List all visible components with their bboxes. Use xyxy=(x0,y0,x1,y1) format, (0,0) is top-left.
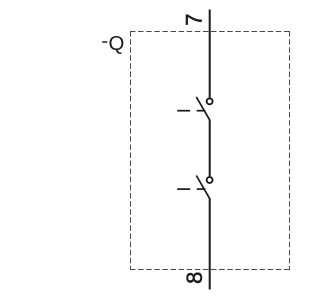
contact 1: actuator dashed link xyxy=(177,110,190,112)
dashed outline box of device -Q : top edge xyxy=(130,31,290,33)
label -Q : leading dash xyxy=(102,41,107,43)
contact 2: fixed contact circle xyxy=(207,177,213,183)
svg-text:Q: Q xyxy=(109,33,125,55)
contact 1: fixed contact circle xyxy=(207,98,213,104)
contact 2: moving lever xyxy=(196,176,210,199)
contact 2: actuator dashed link xyxy=(177,188,190,190)
contact 1: moving lever xyxy=(196,97,210,120)
svg-text:8: 8 xyxy=(182,272,207,284)
wire: top terminal 7 xyxy=(209,10,211,98)
dashed outline box : left edge xyxy=(130,31,132,270)
wire: bottom terminal 8 xyxy=(209,198,211,289)
svg-text:7: 7 xyxy=(182,13,207,25)
dashed outline box : bottom edge xyxy=(130,269,290,271)
wire: between contact 1 and contact 2 xyxy=(209,120,211,177)
dashed outline box : right edge xyxy=(289,31,291,270)
